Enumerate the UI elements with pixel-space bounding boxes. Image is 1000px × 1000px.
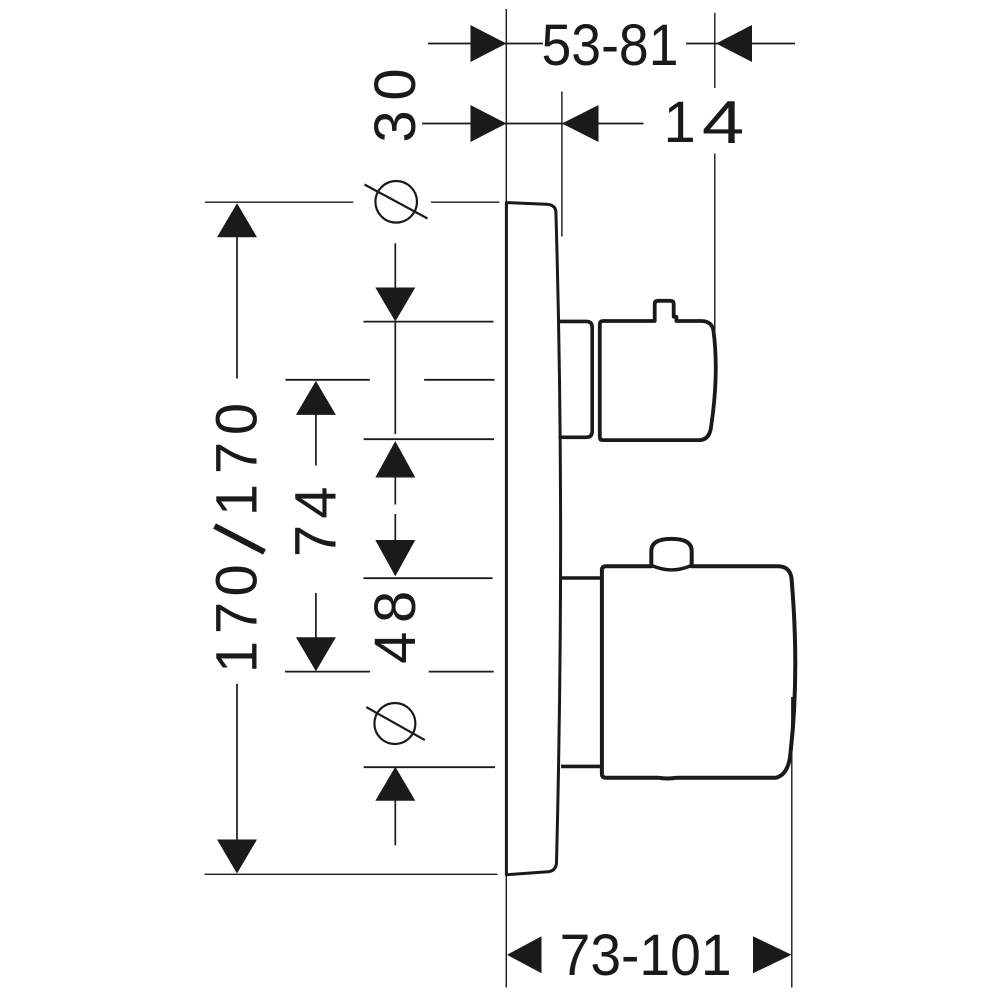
dimension line 170/170 upper: [236, 237, 238, 379]
tick F y=767.2: [364, 766, 495, 768]
tick D y=578.2: [364, 577, 493, 579]
extension line y=874: [205, 873, 498, 875]
svg-text:7: 7: [205, 442, 270, 474]
svg-text:7: 7: [284, 525, 349, 557]
svg-text:1: 1: [663, 90, 695, 155]
bottom knob collar top line: [561, 576, 601, 580]
extension line y=202 right segment: [431, 201, 499, 203]
svg-text:0: 0: [363, 68, 428, 100]
extension line x=562: [561, 92, 563, 237]
arrow 170/170 bottom: [217, 840, 257, 874]
extension line x=506 bottom: [505, 876, 507, 988]
svg-text:73-101: 73-101: [560, 923, 732, 988]
svg-text:1: 1: [205, 484, 270, 516]
label 48 rotated: [363, 591, 428, 664]
dimension line knob axis top: [394, 243, 396, 288]
top knob body with tab: [600, 301, 716, 440]
arrow 73-101 right: [753, 936, 792, 973]
tick A y=321.6: [364, 321, 494, 323]
bottom knob collar bottom line: [561, 765, 601, 769]
bottom knob button lower arc: [651, 565, 691, 570]
arrow 74 top: [296, 381, 336, 415]
arrowheads: [217, 25, 792, 973]
svg-text:1: 1: [205, 641, 270, 673]
extension line x=715 lower: [714, 154, 716, 331]
svg-text:4: 4: [702, 89, 744, 156]
extension line y=202 left segment: [205, 201, 353, 203]
arrow 48 up: [375, 441, 415, 478]
dimension line 170/170 lower: [236, 684, 238, 841]
label 74 rotated: [284, 486, 349, 557]
tick lines: [285, 322, 495, 768]
top knob collar: [559, 321, 593, 437]
arrow 14 left: [471, 105, 507, 142]
diameter symbol bottom: [366, 703, 425, 744]
bottom knob body with button: [602, 539, 795, 779]
arrow 170/170 top: [217, 203, 257, 237]
wall plate: [506, 203, 560, 875]
tick C y=439.2: [364, 438, 494, 440]
svg-text:4: 4: [284, 486, 349, 518]
label 30 rotated: [363, 68, 428, 142]
arrow knob-axis down at tick A: [375, 288, 415, 322]
tick B y=379.8: [286, 379, 370, 381]
svg-text:0: 0: [205, 403, 270, 435]
arrow bottom-axis up: [375, 767, 415, 801]
diameter symbol top: [365, 181, 428, 223]
svg-text:0: 0: [205, 564, 270, 596]
dimension line 48 tails: [394, 477, 396, 505]
arrow 53-81 right: [716, 25, 752, 62]
dimension line bottom knob axis tail: [394, 801, 396, 846]
svg-text:4: 4: [363, 632, 428, 664]
arrow 14 right: [562, 105, 599, 142]
arrow 73-101 left: [507, 936, 542, 973]
extension line x=715 upper: [714, 13, 716, 88]
svg-text:7: 7: [205, 602, 270, 634]
svg-text:53-81: 53-81: [542, 13, 679, 78]
tick E y=671.6: [285, 671, 370, 673]
dimension line 53-81: [237, 44, 795, 846]
arrow 74 bottom: [296, 637, 336, 671]
arrow 48 down: [375, 540, 415, 576]
extension line left vertical x=506 top: [205, 9, 792, 988]
dimension line 74 lower: [315, 593, 317, 638]
arrow 53-81 left: [471, 25, 507, 62]
svg-text:8: 8: [363, 591, 428, 623]
svg-text:3: 3: [363, 110, 428, 142]
dimension line 74 upper: [315, 414, 317, 466]
dimension line 14: [422, 123, 644, 125]
label 170/170 rotated: [205, 403, 270, 673]
extension line x=792: [791, 697, 793, 988]
